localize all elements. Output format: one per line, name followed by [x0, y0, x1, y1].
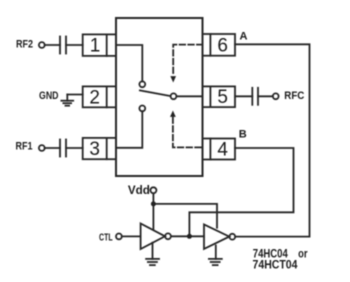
svg-text:A: A [240, 30, 248, 42]
svg-text:or: or [298, 246, 308, 260]
svg-text:5: 5 [217, 87, 228, 108]
svg-text:1: 1 [90, 35, 101, 56]
svg-text:CTL: CTL [99, 231, 113, 243]
svg-text:B: B [239, 129, 247, 141]
svg-text:74HCT04: 74HCT04 [253, 258, 298, 272]
svg-text:3: 3 [89, 139, 100, 160]
svg-text:RFC: RFC [284, 90, 304, 102]
svg-text:6: 6 [217, 35, 228, 56]
svg-text:4: 4 [217, 140, 228, 161]
svg-text:RF2: RF2 [16, 38, 33, 50]
svg-text:Vdd: Vdd [128, 183, 150, 197]
svg-text:GND: GND [39, 90, 59, 102]
svg-text:2: 2 [89, 87, 100, 108]
svg-text:RF1: RF1 [16, 141, 33, 153]
